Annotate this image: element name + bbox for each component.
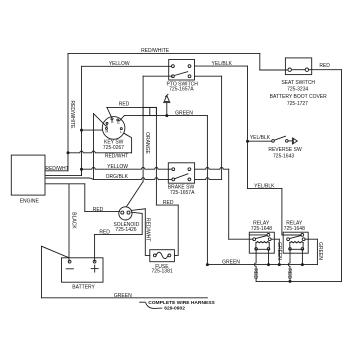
wire relay1 coil right to green (268, 250, 270, 264)
svg-text:GREEN: GREEN (317, 242, 323, 260)
node relay1 coil green (267, 263, 270, 266)
svg-text:G: G (117, 121, 120, 125)
svg-text:ORG/BLK: ORG/BLK (106, 174, 129, 180)
key switch U1 (102, 117, 125, 140)
svg-text:BATTERY BOOT COVER: BATTERY BOOT COVER (270, 94, 328, 100)
wire key S terminal diagonal (94, 114, 107, 127)
svg-text:GREEN: GREEN (114, 293, 132, 299)
node yel/blk reverse junction (246, 140, 249, 143)
wire YEL/BLK vertical (247, 66, 249, 188)
svg-text:RED: RED (319, 63, 330, 69)
fuse F1 (150, 250, 175, 262)
svg-text:725-1657A: 725-1657A (169, 86, 194, 92)
solenoid K3 (119, 207, 132, 220)
wire ORG/BLK to brake switch (94, 178, 172, 180)
node RED/WHT junction (67, 151, 70, 154)
wire to reverse switch (248, 140, 272, 142)
svg-text:ORANGE: ORANGE (144, 132, 150, 154)
wire RED/WHT engine (46, 153, 68, 171)
wire RED battery positive (95, 212, 143, 261)
node relay2 coil green (301, 263, 304, 266)
brake switch S3 (168, 163, 194, 183)
harness pointer symbol (140, 302, 162, 308)
wire RED relay bottom (256, 280, 341, 282)
wire engine org/blk feed (46, 178, 94, 179)
svg-text:ENGINE: ENGINE (20, 199, 40, 205)
svg-text:RED/WHT: RED/WHT (145, 218, 151, 241)
wire battery ground diagonal (42, 246, 70, 298)
wire relay2 output green (305, 239, 317, 264)
svg-text:S: S (106, 124, 109, 128)
wire BLACK battery (68, 184, 70, 261)
wire relay2 coil left to red (288, 250, 290, 281)
wire YELLOW to PTO (82, 65, 172, 67)
svg-text:725-1381: 725-1381 (152, 269, 173, 275)
node relay2 coil red (289, 280, 292, 283)
svg-text:725-1426: 725-1426 (115, 227, 136, 233)
relay K1 (249, 232, 274, 253)
svg-text:SEAT SWITCH: SEAT SWITCH (281, 80, 315, 86)
wire GREEN vertical to relays (206, 116, 208, 265)
wire RED seat switch (309, 70, 342, 282)
svg-text:725-1657A: 725-1657A (170, 190, 195, 196)
node green bottom junction (206, 263, 209, 266)
svg-text:L: L (120, 130, 122, 134)
svg-text:725-1648: 725-1648 (284, 226, 305, 232)
svg-text:RED: RED (99, 230, 110, 236)
svg-text:RED/WHITE: RED/WHITE (141, 48, 170, 54)
svg-text:GREEN: GREEN (222, 259, 240, 265)
PTO switch S1 (169, 60, 195, 81)
svg-text:BATTERY: BATTERY (72, 285, 95, 291)
wire RED brake to fuse (156, 107, 178, 255)
node relay1 output green (278, 263, 281, 266)
svg-text:YEL/BLK: YEL/BLK (250, 135, 271, 141)
svg-text:RED/WHT: RED/WHT (105, 154, 128, 160)
wire brake to relay1 (195, 168, 253, 240)
connector block (143, 107, 156, 115)
wire ORANGE (126, 76, 172, 207)
svg-text:YEL/BLK: YEL/BLK (254, 183, 275, 189)
svg-text:629-0902: 629-0902 (164, 305, 185, 311)
node yellow M junction (80, 129, 83, 132)
wire GREEN bottom (42, 297, 208, 299)
wire YELLOW to brake switch (82, 167, 172, 169)
svg-text:RED: RED (286, 268, 292, 279)
wire GREEN key switch (120, 116, 208, 121)
svg-text:YEL/BLK: YEL/BLK (212, 61, 233, 67)
wire RED key switch top (107, 107, 156, 117)
wire YELLOW vertical (81, 66, 83, 175)
seat switch S2 (285, 58, 311, 75)
svg-text:RED: RED (163, 200, 174, 206)
svg-text:725-1727: 725-1727 (287, 101, 308, 107)
wire PTO to brake (195, 66, 248, 179)
svg-text:BLACK: BLACK (71, 212, 77, 229)
node yellow engine junction (80, 168, 83, 171)
svg-text:RED/WHT: RED/WHT (45, 166, 68, 172)
battery BT1 (62, 258, 104, 282)
wire engine bottom (46, 183, 85, 185)
wire RED/WHITE top (68, 53, 260, 152)
svg-text:GREEN: GREEN (276, 242, 282, 260)
wire GREEN relay bus (207, 264, 317, 266)
svg-text:COMPLETE WIRE HARNESS: COMPLETE WIRE HARNESS (148, 300, 215, 306)
node green harness junction (165, 114, 168, 117)
svg-text:REVERSE SW: REVERSE SW (268, 147, 302, 153)
svg-text:B: B (111, 120, 114, 124)
svg-text:YELLOW: YELLOW (109, 61, 130, 67)
wire engine yellow feed (46, 169, 82, 175)
harness arrow symbol (164, 94, 170, 115)
svg-text:RED: RED (252, 268, 258, 279)
svg-text:725-1643: 725-1643 (273, 154, 294, 160)
wire relay1 output green (271, 239, 279, 264)
svg-text:GREEN: GREEN (175, 110, 193, 116)
wire seat switch feed (260, 53, 288, 70)
engine box (11, 155, 45, 195)
relay K2 (283, 232, 308, 253)
svg-text:RED: RED (93, 207, 104, 213)
svg-text:725-1648: 725-1648 (251, 226, 272, 232)
wire RED/WHT to key switch (68, 133, 132, 153)
wire RED solenoid feed (85, 184, 120, 212)
wire RED/WHT solenoid to fuse (131, 209, 150, 256)
svg-text:RED: RED (119, 101, 130, 107)
svg-text:RED/WHITE: RED/WHITE (69, 100, 75, 129)
wire YEL/BLK to relay2 (248, 188, 301, 235)
wire key M terminal (82, 129, 103, 131)
wire relay2 coil right to green (301, 250, 303, 264)
reverse switch RV1 (272, 136, 298, 144)
svg-text:M: M (105, 130, 108, 134)
svg-text:725-0267: 725-0267 (103, 145, 124, 151)
svg-text:YELLOW: YELLOW (107, 164, 128, 170)
svg-text:725-3234: 725-3234 (287, 86, 308, 92)
wire ORG/BLK vertical (93, 114, 95, 180)
wire relay1 coil left to red (254, 250, 256, 281)
